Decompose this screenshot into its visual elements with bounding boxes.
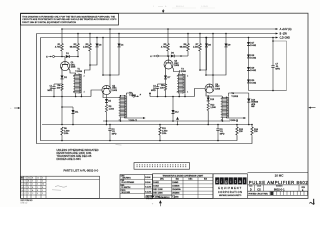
svg-text:2N1499A: 2N1499A (172, 188, 181, 191)
svg-text:3: 3 (119, 120, 120, 122)
conversion chart (153, 174, 214, 199)
resistor R2 (77, 34, 79, 44)
diode D7 (164, 76, 167, 79)
resistor R16 (251, 125, 253, 128)
capacitor C7 (272, 38, 274, 66)
svg-text:MFD: MFD (275, 68, 280, 70)
svg-text:DEC: DEC (189, 179, 194, 181)
svg-text:1008: 1008 (215, 88, 221, 90)
revision history table (21, 176, 100, 198)
wire Q3 collector to T3 (172, 67, 179, 74)
capacitor C1 (54, 83, 62, 85)
svg-text:1,500: 1,500 (193, 47, 199, 49)
svg-text:8-8-64: 8-8-64 (145, 182, 150, 184)
svg-text:D5: D5 (108, 100, 112, 102)
svg-text:100: 100 (57, 88, 61, 90)
diode chain D20 (247, 80, 250, 83)
svg-text:T-2056: T-2056 (153, 196, 160, 198)
svg-text:2: 2 (32, 184, 33, 186)
svg-text:B: B (37, 190, 39, 192)
svg-text:CIRCUITS ARE PROPRIETARY IN NA: CIRCUITS ARE PROPRIETARY IN NATURE AND S… (22, 18, 117, 21)
svg-text:D6: D6 (171, 53, 175, 55)
svg-text:D13: D13 (210, 99, 215, 101)
svg-text:REV: REV (302, 187, 306, 189)
svg-text:64: 64 (42, 184, 44, 186)
resistor R1 (61, 29, 63, 44)
svg-text:B -15V: B -15V (280, 33, 288, 36)
svg-text:NUMBER: NUMBER (276, 186, 283, 188)
transistor Q2 (102, 85, 111, 94)
diode D6 (171, 55, 174, 58)
resistor R9 (164, 84, 166, 91)
svg-text:C,D GND: C,D GND (280, 37, 291, 40)
title line (248, 172, 309, 174)
wire Q1 collector to T1 (68, 68, 75, 73)
resistor R7 (199, 34, 201, 44)
svg-text:E: E (46, 56, 48, 58)
svg-text:D8: D8 (208, 45, 212, 47)
svg-text:D2: D2 (64, 77, 68, 79)
diode chain D18 (247, 55, 250, 58)
faint smudge (116, 144, 122, 147)
wire Q2 collector (109, 84, 111, 88)
svg-text:D-662: D-662 (250, 70, 257, 72)
svg-text:MFD: MFD (151, 90, 156, 92)
wire T2 pins (120, 95, 121, 96)
wire bias right (205, 38, 207, 76)
svg-text:4,700: 4,700 (161, 47, 167, 49)
svg-text:MFD: MFD (220, 134, 225, 136)
svg-text:F: F (140, 94, 142, 96)
resistor R5 (167, 29, 169, 44)
svg-text:10 MC: 10 MC (275, 173, 285, 177)
svg-text:D9: D9 (228, 45, 232, 47)
diode D5 (106, 95, 108, 99)
wire T3 to Q4 base (195, 89, 205, 97)
right margin arrow (311, 107, 316, 109)
svg-text:DEC 1008: DEC 1008 (153, 189, 163, 191)
diode D13 below Q4 (207, 95, 209, 97)
svg-text:A: A (165, 5, 167, 8)
wire Q1 emitter (61, 68, 63, 75)
svg-text:D-662: D-662 (250, 45, 257, 47)
svg-text:1008: 1008 (71, 67, 77, 69)
resistor R15 (236, 125, 238, 128)
svg-text:C: C (22, 184, 24, 186)
svg-text:68,000: 68,000 (180, 47, 187, 49)
svg-text:10%: 10% (162, 133, 166, 135)
svg-text:l: l (244, 179, 245, 184)
diode D9 (225, 34, 227, 44)
wire collector feed Q2 (109, 29, 111, 84)
svg-text:CODE: CODE (257, 186, 261, 188)
diode D1 (66, 55, 69, 58)
-15V rail B (37, 33, 277, 35)
svg-text:4: 4 (25, 187, 26, 189)
signature block (120, 175, 153, 199)
svg-text:T-2056: T-2056 (75, 71, 83, 73)
svg-text:150: 150 (239, 131, 243, 133)
wire chain bottom (249, 90, 287, 92)
svg-text:4: 4 (22, 181, 23, 183)
wire T3 secondary bottom (150, 96, 195, 98)
svg-text:3: 3 (177, 92, 178, 94)
svg-text:10%: 10% (64, 133, 68, 135)
svg-text:64: 64 (25, 184, 27, 186)
svg-text:+: + (10, 107, 12, 110)
svg-text:PARTS LIST A-PL-8602-0-0: PARTS LIST A-PL-8602-0-0 (64, 168, 99, 172)
svg-text:2: 2 (84, 75, 85, 77)
svg-text:1N645: 1N645 (172, 182, 179, 184)
svg-text:D: D (250, 187, 252, 191)
svg-text:150: 150 (254, 131, 258, 133)
svg-text:1,500: 1,500 (109, 108, 115, 110)
svg-text:D-662: D-662 (153, 182, 159, 184)
svg-text:DEC 2894: DEC 2894 (153, 193, 163, 195)
svg-text:8-11-64: 8-11-64 (145, 192, 151, 194)
wire Q4 collector (212, 84, 214, 86)
svg-text:64: 64 (28, 178, 30, 180)
output terminal F (133, 95, 135, 97)
ground loop inner wire (41, 38, 238, 141)
svg-text:4: 4 (42, 181, 43, 183)
+10V rail A (62, 28, 276, 30)
svg-text:8: 8 (28, 187, 29, 189)
wire input (55, 56, 65, 58)
diode chain D17 (248, 38, 250, 43)
capacitor C5 (217, 125, 219, 129)
svg-text:EQUIPMENT: EQUIPMENT (218, 187, 242, 190)
notice box (21, 14, 119, 25)
input terminal H (154, 55, 156, 57)
up arrow terminal (177, 121, 179, 125)
diode D11 branch (62, 106, 73, 108)
svg-text:8-11-64: 8-11-64 (145, 187, 151, 189)
svg-text:PRINTED CIRCUIT REV.: PRINTED CIRCUIT REV. (248, 193, 268, 195)
resistor R6b (187, 34, 189, 44)
resistor R11 lower (159, 125, 161, 128)
svg-text:THIS DRAWING IS FURNISHED ONLY: THIS DRAWING IS FURNISHED ONLY FOR THE T… (22, 15, 115, 18)
svg-text:3: 3 (32, 181, 33, 183)
wire Q4 emitter to T4 (206, 91, 222, 96)
svg-text:W.LONG: W.LONG (122, 192, 131, 194)
resistor R3 (89, 34, 91, 44)
transistor Q4 (205, 84, 214, 93)
left margin arrow (14, 107, 18, 109)
svg-text:1: 1 (28, 193, 29, 195)
wire input right (159, 55, 170, 57)
sheet border (21, 13, 309, 198)
faint top revision strip (153, 5, 215, 8)
svg-text:4,700: 4,700 (55, 47, 61, 49)
svg-text:DRB 102: DRB 102 (21, 202, 28, 204)
form cells dark (146, 196, 158, 199)
edge connector (134, 163, 190, 170)
diode D3 (96, 38, 98, 44)
wire Q2 emitter to T2 (103, 92, 120, 97)
size code number row (254, 185, 256, 191)
transistor Q3 (168, 56, 170, 60)
capacitor C2 (109, 125, 111, 129)
svg-text:3: 3 (42, 190, 43, 192)
diode D4 (118, 34, 120, 44)
svg-text:MB: MB (251, 106, 255, 108)
svg-text:D4: D4 (121, 45, 125, 47)
svg-text:D11: D11 (75, 111, 80, 113)
svg-text:1008: 1008 (174, 65, 180, 67)
svg-text:1: 1 (37, 181, 38, 183)
mid rail wire (42, 124, 252, 126)
svg-text:3: 3 (25, 178, 26, 180)
resistor R12 (207, 101, 209, 103)
svg-text:2: 2 (37, 187, 38, 189)
svg-text:8602-0-1: 8602-0-1 (274, 187, 285, 191)
svg-text:DEC: DEC (160, 179, 165, 181)
svg-text:1N3606: 1N3606 (172, 186, 180, 188)
svg-text:3: 3 (25, 181, 26, 183)
svg-text:2: 2 (187, 75, 188, 77)
wire T4 secondary to D10 (227, 93, 229, 97)
svg-text:1: 1 (22, 193, 23, 195)
svg-text:A +10V (A): A +10V (A) (280, 28, 292, 31)
svg-text:CS: CS (257, 187, 261, 191)
svg-text:4: 4 (37, 193, 38, 195)
svg-text:D1: D1 (66, 53, 70, 55)
svg-text:T-2056: T-2056 (172, 196, 179, 198)
bottom-right handwritten mark (310, 202, 315, 204)
T2 secondary output arrow (124, 117, 143, 119)
svg-text:+: + (152, 203, 154, 206)
resistor R8 (106, 102, 108, 104)
svg-text:2: 2 (28, 184, 29, 186)
diode D12 branch (167, 96, 176, 98)
wire bias (102, 38, 104, 76)
svg-text:8-8-64: 8-8-64 (145, 177, 150, 179)
svg-text:MAYNARD, MASSACHUSETTS: MAYNARD, MASSACHUSETTS (219, 194, 241, 197)
svg-text:D3: D3 (99, 45, 103, 47)
svg-text:3: 3 (42, 193, 43, 195)
svg-text:B: B (302, 190, 304, 192)
svg-text:d: d (216, 179, 219, 184)
svg-text:4: 4 (84, 92, 85, 94)
wire T1 to Q2 base (91, 90, 102, 97)
svg-text:8: 8 (25, 190, 26, 192)
diode D2 (61, 76, 64, 79)
svg-text:1,500: 1,500 (83, 47, 89, 49)
diode D10 (248, 93, 250, 99)
svg-text:D-662: D-662 (250, 57, 257, 59)
svg-text:3: 3 (42, 178, 43, 180)
svg-text:100: 100 (160, 88, 164, 90)
svg-text:DIODES ARE D-664: DIODES ARE D-664 (57, 157, 82, 161)
svg-text:1: 1 (177, 75, 178, 77)
ground loop outer wire (37, 34, 253, 144)
svg-text:1: 1 (28, 190, 29, 192)
resistor R6 lower (61, 97, 63, 125)
svg-text:MFD: MFD (48, 90, 53, 92)
svg-text:RIGHT 1964 BY DIGITAL EQUIPMEN: RIGHT 1964 BY DIGITAL EQUIPMENT CORPORAT… (22, 21, 76, 24)
digital logo (212, 174, 214, 199)
svg-text:g: g (225, 179, 228, 184)
svg-text:a: a (239, 179, 242, 184)
svg-text:J.BURNS: J.BURNS (122, 177, 132, 179)
svg-text:A: A (28, 180, 30, 183)
svg-text:64: 64 (22, 187, 24, 189)
svg-text:1: 1 (153, 6, 155, 8)
svg-text:12: 12 (37, 178, 39, 180)
T4 secondary output arrow (226, 117, 243, 119)
svg-text:MFD: MFD (112, 134, 117, 136)
wire T1 secondary bottom (41, 96, 92, 98)
svg-text:68,000: 68,000 (70, 47, 77, 49)
diode chain D19 (247, 67, 250, 70)
resistor R4 (61, 84, 63, 91)
svg-text:D-664: D-664 (153, 186, 159, 188)
svg-text:1,500: 1,500 (210, 107, 216, 109)
svg-text:D7: D7 (168, 77, 172, 79)
svg-text:H: H (150, 56, 152, 58)
svg-text:D-662: D-662 (250, 82, 257, 84)
svg-text:SIZE: SIZE (249, 186, 252, 188)
GND rail C,D (41, 37, 277, 39)
svg-text:D.SMITH: D.SMITH (122, 187, 131, 189)
svg-text:D12: D12 (175, 111, 180, 113)
svg-text:3: 3 (73, 92, 74, 94)
transistor Q1 (64, 57, 66, 62)
svg-text:2N2894: 2N2894 (172, 193, 180, 195)
svg-text:CORPORATION: CORPORATION (218, 191, 242, 194)
svg-text:A: A (32, 189, 34, 192)
wire collector feed Q4 (212, 34, 214, 85)
svg-text:i: i (221, 179, 222, 184)
svg-text:T-2058: T-2058 (231, 96, 238, 98)
svg-text:R.HOFFMAN: R.HOFFMAN (122, 181, 135, 184)
upper mid rail wire (103, 120, 230, 122)
svg-text:64: 64 (22, 190, 24, 192)
svg-text:1: 1 (73, 75, 74, 77)
diode D8 (206, 38, 208, 44)
svg-text:PULSE AMPLIFIER 8602: PULSE AMPLIFIER 8602 (249, 180, 309, 185)
svg-text:T-2056: T-2056 (179, 71, 187, 73)
capacitor C3 (158, 83, 166, 85)
svg-text:1008: 1008 (112, 90, 118, 92)
top center margin arrow (162, 9, 164, 12)
svg-text:i: i (230, 179, 231, 184)
wire Q3 emitter (164, 67, 166, 76)
input terminal E (50, 56, 52, 58)
svg-text:4: 4 (187, 92, 188, 94)
svg-text:4: 4 (37, 184, 38, 186)
svg-text:T-2058-C2: T-2058-C2 (129, 120, 138, 122)
bottom center margin arrow (159, 201, 161, 206)
svg-text:3: 3 (221, 120, 222, 122)
